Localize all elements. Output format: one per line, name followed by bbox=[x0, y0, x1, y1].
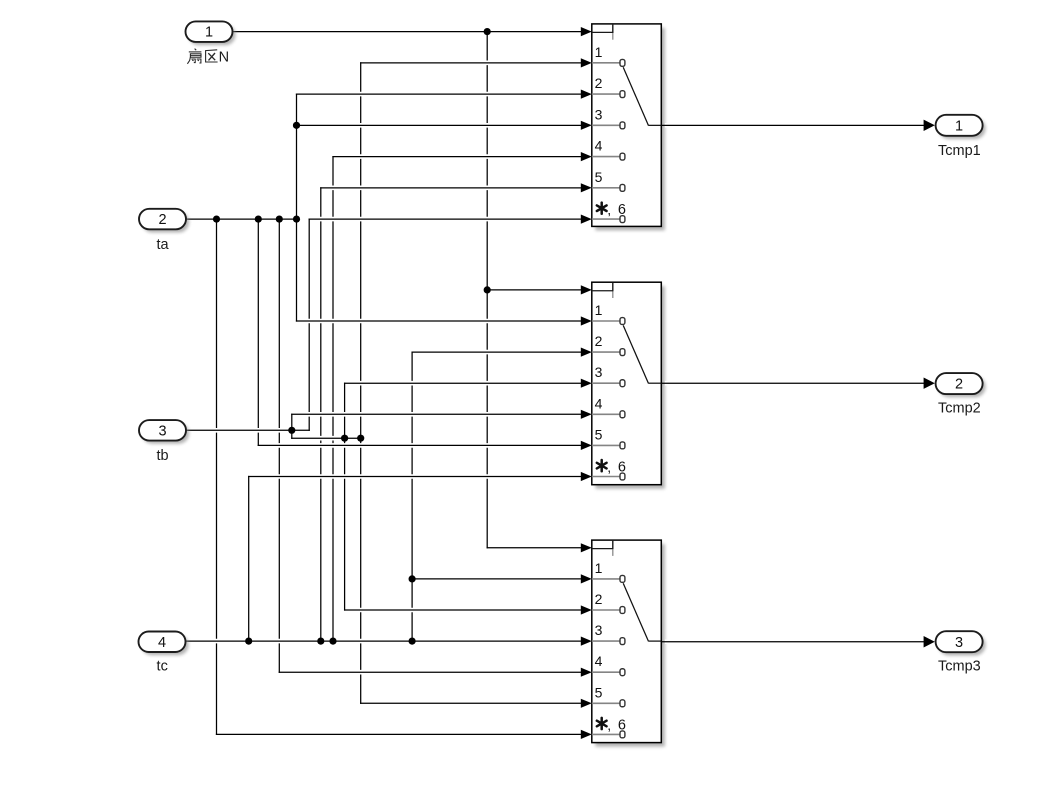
wire net-tb vertical x361 (SW1 in1 / SW3 in5) bbox=[360, 63, 362, 703]
junction tb branch bbox=[288, 427, 295, 434]
SW2 data port 5 stub bbox=[592, 442, 625, 449]
svg-text:3: 3 bbox=[595, 106, 603, 122]
wire tb to SW1 data input 1 bbox=[361, 58, 592, 67]
wire net-ta vertical x258 (to SW2 in5) bbox=[257, 219, 259, 445]
wire tb to SW2 data input 4 bbox=[292, 410, 592, 419]
multiport switch SW2 body bbox=[592, 282, 665, 489]
junction ta / SW1 input 3 bbox=[293, 122, 300, 129]
wire tb to SW1 data input *,6 bbox=[309, 215, 592, 224]
wire tb lower branch y438 bbox=[292, 436, 361, 441]
SW3 data port 2 stub bbox=[592, 607, 625, 614]
svg-text:2: 2 bbox=[595, 75, 603, 91]
wire net-tc vertical x333 (to SW1 in4) bbox=[332, 157, 334, 641]
svg-text:6: 6 bbox=[618, 717, 626, 733]
svg-text:,: , bbox=[607, 202, 611, 218]
inport 1 (扇区N) bbox=[186, 21, 236, 45]
wire tc horizontal from inport 4 to SW3 data input 3 bbox=[186, 637, 592, 646]
SW1 data port 2 stub bbox=[592, 91, 625, 98]
wire net-ta vertical x279 (to SW3 in4) bbox=[278, 219, 280, 672]
wire ta to SW2 data input 5 bbox=[258, 441, 592, 450]
svg-text:3: 3 bbox=[595, 364, 603, 380]
junction 扇区N / SW2 control bbox=[484, 286, 491, 293]
wire net-ta vertical x216 (to SW3 in6) bbox=[216, 219, 218, 734]
wire net-tc vertical x249 (to SW2 in6) bbox=[248, 477, 250, 642]
SW2 data port 1 stub bbox=[592, 318, 625, 325]
SW3 selector arm bbox=[623, 583, 661, 641]
svg-text:5: 5 bbox=[595, 684, 603, 700]
SW2 data port 2 stub bbox=[592, 349, 625, 356]
multiport switch SW1 body bbox=[592, 24, 665, 231]
svg-text:Tcmp2: Tcmp2 bbox=[938, 401, 981, 417]
wire 扇区N to SW1 control port bbox=[233, 27, 592, 36]
svg-text:4: 4 bbox=[595, 138, 603, 154]
SW3 data port 1 stub bbox=[592, 575, 625, 582]
wire ta to SW1 data input 2 bbox=[297, 90, 592, 99]
svg-text:5: 5 bbox=[595, 426, 603, 442]
wire SW3 output to outport Tcmp3 bbox=[662, 636, 935, 648]
junction ta branch 2 bbox=[255, 216, 262, 223]
svg-text:,: , bbox=[607, 717, 611, 733]
inport 3 (tb) bbox=[139, 420, 189, 444]
svg-text:6: 6 bbox=[618, 460, 626, 476]
svg-text:2: 2 bbox=[955, 377, 963, 393]
SW2 data port 4 stub bbox=[592, 411, 625, 418]
svg-text:,: , bbox=[607, 459, 611, 475]
wire ta to SW3 data input 4 bbox=[279, 668, 592, 677]
wire ta to SW1 data input 3 bbox=[297, 121, 592, 130]
wire tc to SW2 data input 2 bbox=[412, 348, 592, 357]
inport 2 (ta) bbox=[139, 209, 189, 233]
inport 4 (tc) bbox=[139, 632, 189, 656]
SW3 control port marker bbox=[592, 541, 613, 556]
svg-text:4: 4 bbox=[158, 635, 166, 651]
svg-text:2: 2 bbox=[595, 333, 603, 349]
svg-text:4: 4 bbox=[595, 653, 603, 669]
svg-text:4: 4 bbox=[595, 395, 603, 411]
wire net-tb vertical x292 (to SW2 in4) bbox=[291, 414, 293, 438]
SW3 data port 3 stub bbox=[592, 638, 625, 645]
svg-text:5: 5 bbox=[595, 169, 603, 185]
SW1 data port 1 stub bbox=[592, 59, 625, 66]
svg-text:ta: ta bbox=[156, 237, 169, 253]
SW2 control port marker bbox=[592, 283, 613, 298]
junction tc branch 3 bbox=[329, 638, 336, 645]
wire tc to SW1 data input 4 bbox=[333, 152, 592, 161]
junction tc branch 1 bbox=[245, 638, 252, 645]
svg-text:tb: tb bbox=[156, 448, 168, 464]
SW1 data port 6 stub bbox=[592, 216, 625, 223]
SW3 data port 5 stub bbox=[592, 700, 625, 707]
junction 扇区N / SW1 control bbox=[484, 28, 491, 35]
svg-text:tc: tc bbox=[157, 658, 168, 674]
svg-text:1: 1 bbox=[205, 25, 213, 41]
svg-text:2: 2 bbox=[158, 212, 166, 228]
svg-text:3: 3 bbox=[595, 622, 603, 638]
SW1 control port marker bbox=[592, 25, 613, 40]
wire tc to SW2 data input *,6 bbox=[249, 472, 592, 481]
svg-text:3: 3 bbox=[955, 635, 963, 651]
junction ta branch 3 bbox=[276, 216, 283, 223]
SW3 port label *,6 bbox=[597, 717, 626, 734]
wire SW2 output to outport Tcmp2 bbox=[662, 378, 935, 389]
wire tb to SW2 data input 3 bbox=[345, 379, 592, 388]
svg-text:6: 6 bbox=[618, 202, 626, 218]
wire SW1 output to outport Tcmp1 bbox=[662, 120, 935, 131]
svg-text:1: 1 bbox=[955, 118, 963, 134]
wire net-tc vertical x321 (to SW1 in5) bbox=[320, 188, 322, 641]
SW3 data port 4 stub bbox=[592, 669, 625, 676]
label 扇区N (hanzi drawn as vector strokes) bbox=[187, 49, 217, 64]
wire ta to SW3 data input *,6 bbox=[217, 730, 592, 739]
junction tc / SW3 input 1 bbox=[409, 575, 416, 582]
wire ta to SW2 data input 1 bbox=[297, 316, 592, 325]
SW2 selector arm bbox=[623, 325, 661, 383]
wire tb horizontal from inport 3 bbox=[186, 428, 309, 433]
junction tb / x361 bbox=[357, 435, 364, 442]
wire net-tb vertical x345 (SW2 in3 / SW3 in2) bbox=[344, 383, 346, 610]
SW1 data port 3 stub bbox=[592, 122, 625, 129]
wire 扇区N to SW3 control port bbox=[487, 543, 592, 552]
junction tc / x412 bbox=[409, 638, 416, 645]
outport 1 (Tcmp1) bbox=[936, 115, 986, 139]
junction tc branch 2 bbox=[317, 638, 324, 645]
svg-text:3: 3 bbox=[158, 423, 166, 439]
SW1 data port 5 stub bbox=[592, 184, 625, 191]
junction ta branch 4 bbox=[293, 216, 300, 223]
SW3 data port 6 stub bbox=[592, 731, 625, 738]
wire net-tc vertical x412 (SW2 in2 / SW3 in1) bbox=[411, 352, 413, 641]
wire net-ta vertical x296 (to SW1 in2/in3, SW2 in1) bbox=[296, 94, 298, 321]
svg-text:2: 2 bbox=[595, 591, 603, 607]
wire tb to SW3 data input 5 bbox=[361, 699, 592, 708]
SW2 data port 3 stub bbox=[592, 380, 625, 387]
outport 3 (Tcmp3) bbox=[936, 631, 986, 655]
outport 2 (Tcmp2) bbox=[936, 373, 986, 397]
SW2 port label *,6 bbox=[597, 459, 626, 476]
SW1 selector arm bbox=[623, 67, 661, 125]
svg-text:Tcmp3: Tcmp3 bbox=[938, 659, 981, 675]
junction ta branch 1 bbox=[213, 216, 220, 223]
svg-text:1: 1 bbox=[595, 44, 603, 60]
wire net-tb vertical x309 (to SW1 in6) bbox=[308, 219, 310, 430]
SW1 data port 4 stub bbox=[592, 153, 625, 160]
wire ta horizontal from inport 2 bbox=[186, 217, 297, 222]
wire tc to SW3 data input 1 bbox=[412, 574, 592, 583]
wire net-sectorN vertical x487 bbox=[486, 32, 488, 548]
SW1 port label *,6 bbox=[597, 202, 626, 219]
wire tb to SW3 data input 2 bbox=[345, 605, 592, 614]
wire tc to SW1 data input 5 bbox=[321, 183, 592, 192]
svg-text:1: 1 bbox=[595, 560, 603, 576]
svg-text:1: 1 bbox=[595, 302, 603, 318]
svg-text:Tcmp1: Tcmp1 bbox=[938, 143, 981, 159]
SW2 data port 6 stub bbox=[592, 473, 625, 480]
wire 扇区N to SW2 control port bbox=[487, 285, 592, 294]
junction tb / x345 bbox=[341, 435, 348, 442]
svg-text:N: N bbox=[219, 49, 229, 65]
multiport switch SW3 body bbox=[592, 540, 665, 747]
